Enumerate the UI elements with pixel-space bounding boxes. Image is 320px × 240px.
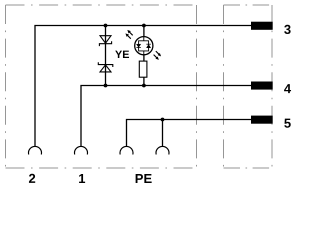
connector outline (chain-line box right)	[224, 5, 273, 168]
socket contact 2	[28, 146, 41, 154]
junction dot lower rail / diode branch	[104, 84, 108, 88]
svg-text:3: 3	[284, 22, 291, 37]
junction dot lower rail / resistor branch	[142, 84, 146, 88]
junction dot top wire / LED branch	[142, 24, 146, 28]
LED light arrows upper left	[126, 31, 133, 39]
label 2	[29, 171, 36, 186]
label 3	[284, 22, 291, 37]
wire: PE contacts to pin 5	[127, 120, 252, 147]
svg-text:5: 5	[284, 116, 291, 131]
wire: LED branch upper	[143, 26, 145, 37]
wire: LED to resistor	[143, 55, 145, 61]
svg-text:YE: YE	[115, 49, 129, 61]
label YE	[115, 49, 129, 61]
pin 5 contact blade	[251, 116, 273, 124]
suppressor diode D2 (cathode up)	[98, 62, 113, 72]
LED internal anti-parallel chips	[136, 37, 150, 55]
label 5	[284, 116, 291, 131]
junction dot top wire / diode branch	[104, 24, 108, 28]
svg-text:1: 1	[78, 171, 85, 186]
LED light arrows lower right	[154, 51, 161, 59]
pin 3 contact blade	[251, 22, 273, 30]
svg-text:2: 2	[29, 171, 36, 186]
label 4	[284, 81, 292, 96]
svg-text:4: 4	[284, 81, 292, 96]
LED U1 circle	[135, 37, 153, 55]
valve housing outline (chain-line box left)	[6, 5, 197, 168]
junction dot PE wire	[161, 118, 165, 122]
suppressor diode D1 (cathode down)	[99, 36, 111, 46]
wire: second PE contact drop	[162, 120, 164, 147]
pin 4 contact blade	[251, 82, 273, 90]
wire: contact 1 up and across to pin 4	[81, 86, 251, 147]
label 1	[78, 171, 85, 186]
label PE	[135, 171, 153, 186]
socket contact PE right	[156, 146, 169, 154]
socket contact 1	[75, 146, 88, 154]
resistor R1	[139, 61, 147, 77]
socket contact PE left	[120, 146, 133, 154]
wire: suppressor diode branch	[105, 26, 107, 86]
svg-text:PE: PE	[135, 171, 153, 186]
wire: resistor to lower rail	[143, 77, 145, 85]
wire: contact 2 up and across to pin 3	[35, 26, 251, 147]
